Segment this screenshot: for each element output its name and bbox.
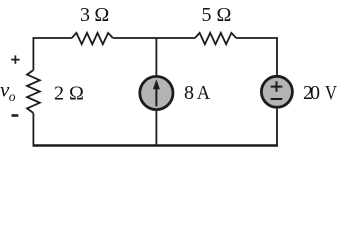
svg-text:2 Ω: 2 Ω: [54, 83, 84, 105]
wire: bottom rail (ground return, left to right): [33, 144, 278, 147]
svg-text:V: V: [325, 82, 337, 104]
svg-text:3 Ω: 3 Ω: [80, 4, 109, 26]
resistor R3 2Ω (left vertical zigzag): [27, 70, 40, 113]
resistor R1 3Ω (top-left zigzag): [72, 33, 113, 44]
wire: left branch bottom (R3 to bottom rail): [32, 113, 34, 146]
node: vo plus terminal: [11, 55, 19, 63]
svg-text:A: A: [197, 82, 211, 104]
svg-text:20: 20: [303, 82, 320, 104]
current source I1 8A (circle with up arrow): [140, 76, 173, 109]
resistor R2 5Ω (top-right zigzag): [195, 33, 236, 44]
svg-text:o: o: [9, 89, 16, 104]
wire: right branch bottom (V1 to bottom rail): [276, 109, 278, 146]
wire: top-left corner (from R1 left lead to left branch): [33, 38, 71, 70]
svg-text:8: 8: [184, 82, 194, 104]
node: vo minus terminal: [12, 114, 19, 117]
wire: top middle (R1 right lead to node A): [113, 37, 195, 39]
wire: top-right corner (R2 right lead down to V1): [236, 38, 277, 76]
svg-text:5 Ω: 5 Ω: [202, 4, 232, 26]
wire: middle branch top (node A down to current source): [155, 38, 157, 77]
wire: middle branch bottom (current source to bottom rail): [155, 110, 157, 146]
voltage source V1 20V (circle with plus/minus): [261, 76, 292, 107]
